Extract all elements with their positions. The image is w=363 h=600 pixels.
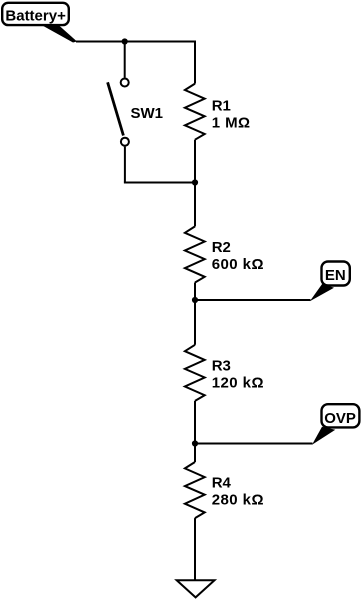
wire OVP horizontal [195,443,313,445]
node junction mid [192,179,198,185]
svg-text:SW1: SW1 [131,105,164,122]
wire R4 bottom lead [194,518,196,580]
resistor R2 [185,226,264,282]
wire top horizontal [76,41,195,43]
node OVP junction [192,440,198,446]
node EN junction [192,297,198,303]
flag OVP [312,404,359,445]
switch SW1 [108,79,163,146]
svg-text:R3: R3 [212,357,231,374]
svg-text:120 kΩ: 120 kΩ [212,375,264,392]
wire R4 top lead [194,444,196,463]
wire switch lower lead [124,147,126,183]
wire R2 bottom lead [194,283,196,301]
resistor R1 [185,84,251,140]
svg-text:Battery+: Battery+ [5,7,66,24]
svg-text:R1: R1 [212,97,231,114]
wire R1 bottom lead [194,140,196,183]
flag EN [310,262,350,302]
svg-text:600 kΩ: 600 kΩ [212,256,264,273]
svg-text:OVP: OVP [324,410,356,427]
node junction top [122,38,128,44]
svg-text:1 MΩ: 1 MΩ [212,115,251,132]
ground [177,580,215,597]
svg-text:280 kΩ: 280 kΩ [212,492,264,509]
wire R2 top lead [194,183,196,227]
wire R3 bottom lead [194,401,196,444]
resistor R3 [185,345,264,401]
flag Battery+ [2,3,77,43]
wire switch upper lead [124,42,126,78]
wire R1 top lead [194,41,196,84]
wire switch bottom horizontal [124,182,195,184]
wire EN horizontal [195,299,311,301]
svg-text:R2: R2 [212,239,231,256]
svg-text:EN: EN [325,267,346,284]
wire R3 top lead [194,300,196,345]
resistor R4 [185,462,264,518]
svg-text:R4: R4 [212,474,232,491]
